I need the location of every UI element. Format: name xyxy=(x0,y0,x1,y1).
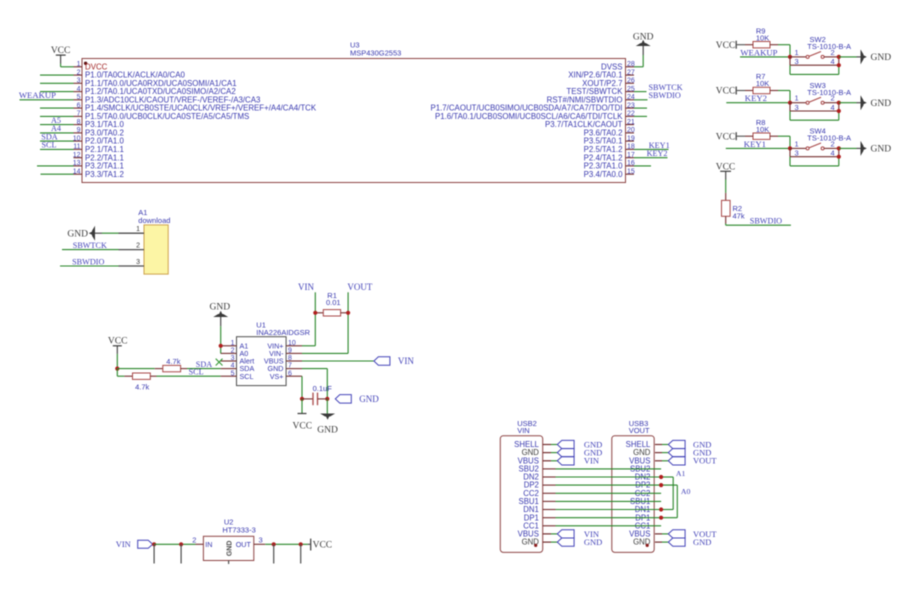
wire DP1 USB2 to USB3 xyxy=(543,517,661,519)
svg-text:3: 3 xyxy=(259,535,263,544)
wire net SBWTCK (A1 pin2) xyxy=(62,249,119,251)
wire net SCL xyxy=(157,375,221,377)
junction SW2 pin2 xyxy=(837,55,841,59)
port flag GND (cap) xyxy=(335,394,379,404)
switch SW3 TS-1010-B-A xyxy=(790,81,851,112)
wire U3 pin 4 xyxy=(40,91,74,93)
junction SW4 pin4 xyxy=(837,155,841,159)
junction SW4 pin2 xyxy=(837,146,841,150)
switch SW4 TS-1010-B-A xyxy=(790,127,851,158)
svg-text:12: 12 xyxy=(73,152,81,159)
svg-text:XIN/P2.6/TA0.1: XIN/P2.6/TA0.1 xyxy=(568,71,622,80)
port flag VIN (U2) xyxy=(116,539,153,549)
wire VCC to R9 xyxy=(737,44,745,46)
svg-text:VCC: VCC xyxy=(293,421,313,431)
ground GND (below cap) xyxy=(317,414,338,436)
wire net KEY1 xyxy=(726,147,790,149)
junction cap right xyxy=(325,397,329,401)
resistor R1 0.01 xyxy=(315,291,348,316)
junction cap left xyxy=(300,397,304,401)
svg-text:VIN: VIN xyxy=(298,282,314,292)
wire U3 pin 11 xyxy=(40,148,74,150)
svg-text:DVSS: DVSS xyxy=(601,62,623,71)
wire U3 pin 10 xyxy=(40,140,74,142)
ground GND (U3 pin 28) xyxy=(633,33,654,55)
svg-text:P2.3/TA1.0: P2.3/TA1.0 xyxy=(584,162,624,171)
svg-text:VCC: VCC xyxy=(716,87,736,97)
port flag GND (USB3 GND) xyxy=(668,448,711,458)
ground GND (SW4) xyxy=(857,141,892,156)
wire SW2 pins 3-4 loop xyxy=(790,65,839,74)
svg-text:2: 2 xyxy=(831,94,835,103)
junction R1 left xyxy=(313,311,317,315)
svg-text:SBWDIO: SBWDIO xyxy=(750,216,782,225)
wire cap to VCC xyxy=(301,399,303,414)
power flag VCC (R2) xyxy=(716,162,736,179)
junction DN1 xyxy=(659,507,663,511)
junction output cap 2 xyxy=(299,542,303,546)
wire CC2 USB2 to USB3 xyxy=(543,492,661,494)
svg-text:GND: GND xyxy=(67,230,88,240)
junction output cap xyxy=(272,542,276,546)
port flag VIN (USB2 VBUS) xyxy=(557,529,599,539)
power flag VCC (R9 row) xyxy=(716,41,736,51)
regulator U2 HT7333-3 xyxy=(203,518,255,564)
resistor R2 47k xyxy=(722,193,745,224)
svg-text:GND: GND xyxy=(584,537,602,547)
wire U1 GND to cap xyxy=(302,369,327,399)
junction input cap xyxy=(179,542,183,546)
svg-text:5: 5 xyxy=(77,94,81,101)
no-connect X (U1 pin3 Alert) xyxy=(216,359,223,366)
svg-text:P3.7/TA1CLK/CAOUT: P3.7/TA1CLK/CAOUT xyxy=(545,120,623,129)
wire cap to GND xyxy=(326,399,328,414)
wire VCC to U3 pin1 xyxy=(61,64,74,67)
power flag VCC (U3 pin 1) xyxy=(51,46,71,64)
svg-text:SBWTCK: SBWTCK xyxy=(73,241,107,250)
wire USB2 SHELL pin xyxy=(543,444,551,446)
svg-text:GND: GND xyxy=(693,537,711,547)
svg-text:1: 1 xyxy=(231,340,235,347)
svg-text:14: 14 xyxy=(73,168,81,175)
switch SW2 TS-1010-B-A xyxy=(790,35,851,66)
wire net VIN (U1 VBUS) xyxy=(302,360,374,362)
connector USB3 (VOUT) xyxy=(612,419,654,553)
port flag VOUT (USB3 VBUS) xyxy=(668,456,717,466)
wire DP2 USB2 to USB3 xyxy=(543,484,661,486)
svg-text:VOUT: VOUT xyxy=(347,282,372,292)
svg-text:VCC: VCC xyxy=(716,132,736,142)
resistor R9 10K xyxy=(745,26,778,48)
svg-text:0.01: 0.01 xyxy=(326,298,341,307)
svg-text:P1.7/CAOUT/UCB0SIMO/UCB0SDA/A7: P1.7/CAOUT/UCB0SIMO/UCB0SDA/A7/CA7/TDO/T… xyxy=(430,104,622,113)
wire net WEAKUP (U3 pin 5) xyxy=(20,99,74,101)
svg-text:7: 7 xyxy=(288,363,292,370)
wire VOUT vertical xyxy=(302,292,348,353)
wire GND to U1 pin1 xyxy=(220,326,222,353)
resistor R8 10K xyxy=(745,118,778,140)
wire U3 pin 3 xyxy=(40,82,74,84)
capacitor lead (output, cropped) xyxy=(273,544,275,563)
wire DN1 USB2 to USB3 xyxy=(543,509,661,511)
svg-text:VIN: VIN xyxy=(517,426,530,435)
svg-text:OUT: OUT xyxy=(236,540,252,549)
svg-text:KEY1: KEY1 xyxy=(744,139,766,149)
power flag VCC (U1 pullups) xyxy=(108,336,128,354)
svg-text:SBWDIO: SBWDIO xyxy=(649,91,681,100)
wire USB3 GND pin xyxy=(655,541,662,543)
wire VCC to R7 xyxy=(737,90,745,92)
wire VCC branch down xyxy=(117,369,124,377)
svg-text:SCL: SCL xyxy=(41,141,56,150)
wire U3 pin 22 xyxy=(634,115,647,117)
svg-text:TS-1010-B-A: TS-1010-B-A xyxy=(807,88,851,97)
power flag VCC (R7 row) xyxy=(716,87,736,97)
svg-text:VIN: VIN xyxy=(584,456,599,466)
svg-text:GND: GND xyxy=(317,425,338,435)
svg-text:11: 11 xyxy=(73,144,80,151)
junction node WEAKUP xyxy=(788,55,792,59)
IC U1 INA226AIDGSR xyxy=(221,320,311,385)
wire SW3 to GND xyxy=(839,102,857,104)
wire USB3 VBUS pin xyxy=(655,460,662,462)
wire U3 pin 24 xyxy=(634,99,648,101)
junction node KEY1 xyxy=(788,146,792,150)
svg-text:18: 18 xyxy=(627,144,635,151)
wire USB2 VBUS pin xyxy=(543,533,551,535)
svg-text:2: 2 xyxy=(192,535,196,544)
wire SBU1 USB2 to USB3 xyxy=(543,500,661,502)
wire U3 pin 14 xyxy=(41,173,74,175)
svg-text:6: 6 xyxy=(77,102,81,109)
svg-text:WEAKUP: WEAKUP xyxy=(19,90,56,100)
resistor 4.7k (SDA pullup) xyxy=(155,357,187,372)
port flag GND (USB3 SHELL) xyxy=(668,439,711,449)
svg-text:VCC: VCC xyxy=(313,540,333,550)
wire VCC to R8 xyxy=(737,135,745,137)
junction U1 pin1 xyxy=(219,344,223,348)
svg-text:8: 8 xyxy=(288,355,292,362)
wire U3 pin 7 xyxy=(40,115,74,117)
wire net KEY1 (U3 pin18) xyxy=(634,148,669,150)
svg-text:2: 2 xyxy=(831,139,835,148)
IC U3 MSP430G2553 xyxy=(73,41,635,183)
junction DP1 xyxy=(659,516,663,520)
junction SW3 pin4 xyxy=(837,109,841,113)
svg-text:20: 20 xyxy=(627,127,635,134)
svg-text:21: 21 xyxy=(627,119,635,126)
svg-text:WEAKUP: WEAKUP xyxy=(740,47,777,57)
svg-text:P1.6/TA0.1/UCB0SOMI/UCB0SCL/A6: P1.6/TA0.1/UCB0SOMI/UCB0SCL/A6/CA6/TDI/T… xyxy=(435,112,623,121)
ground GND (A1 pin1) xyxy=(67,226,102,241)
svg-text:19: 19 xyxy=(627,135,635,142)
ground GND (U1 pins 1-2) xyxy=(210,302,231,326)
wire U2 OUT to VCC xyxy=(254,543,310,545)
svg-text:A0: A0 xyxy=(681,487,691,496)
junction R1 right xyxy=(346,311,350,315)
wire VIN to U2 IN xyxy=(154,543,203,545)
svg-text:P3.5/TA0.1: P3.5/TA0.1 xyxy=(584,137,623,146)
wire SW3 pins 3-4 loop xyxy=(790,111,839,120)
svg-text:25: 25 xyxy=(627,86,635,93)
ground GND (SW2) xyxy=(857,49,892,64)
svg-text:1: 1 xyxy=(77,61,81,68)
svg-text:4.7k: 4.7k xyxy=(135,382,149,391)
svg-text:1: 1 xyxy=(136,226,140,233)
svg-text:GND: GND xyxy=(210,302,231,312)
svg-text:3: 3 xyxy=(77,78,81,85)
svg-text:GND: GND xyxy=(359,394,379,404)
port flag VIN (USB2 VBUS) xyxy=(557,456,599,466)
wire USB2 GND pin xyxy=(543,452,551,454)
junction SW3 pin2 xyxy=(837,101,841,105)
svg-text:KEY2: KEY2 xyxy=(647,149,668,158)
svg-text:VS+: VS+ xyxy=(270,372,284,381)
capacitor 0.1uF xyxy=(302,384,332,405)
svg-text:1: 1 xyxy=(795,94,799,103)
svg-text:23: 23 xyxy=(627,102,635,109)
capacitor lead (output 2, cropped) xyxy=(300,544,302,563)
wire SBU2 USB2 to USB3 xyxy=(543,468,661,470)
junction SW2 pin4 xyxy=(837,63,841,67)
port flag VIN (U1 VBUS) xyxy=(374,356,414,366)
wire U3 pin 8 xyxy=(40,124,74,126)
svg-text:HT7333-3: HT7333-3 xyxy=(222,525,255,534)
svg-text:VCC: VCC xyxy=(716,41,736,51)
svg-text:VIN: VIN xyxy=(116,539,131,549)
port flag GND (USB3 GND) xyxy=(668,537,711,547)
svg-text:P2.5/TA1.2: P2.5/TA1.2 xyxy=(584,145,623,154)
svg-text:2: 2 xyxy=(231,348,235,355)
svg-text:10: 10 xyxy=(73,135,81,142)
svg-text:IN: IN xyxy=(205,540,212,549)
wire net KEY2 xyxy=(726,102,790,104)
svg-text:TS-1010-B-A: TS-1010-B-A xyxy=(807,134,851,143)
svg-text:download: download xyxy=(138,216,170,225)
wire SW4 pins 3-4 loop xyxy=(790,157,839,166)
wire USB3 VBUS pin xyxy=(655,533,662,535)
svg-text:INA226AIDGSR: INA226AIDGSR xyxy=(256,328,310,337)
svg-text:SCL: SCL xyxy=(240,372,254,381)
svg-text:4: 4 xyxy=(77,86,81,93)
wire U1 VS+ down xyxy=(301,376,303,399)
svg-text:15: 15 xyxy=(627,168,635,175)
capacitor lead (input, cropped) xyxy=(153,544,155,563)
svg-text:47k: 47k xyxy=(733,212,745,221)
svg-text:10K: 10K xyxy=(756,33,769,42)
junction DN2 xyxy=(659,475,663,479)
svg-text:10K: 10K xyxy=(756,79,769,88)
svg-text:4.7k: 4.7k xyxy=(166,357,180,366)
svg-text:SBWDIO: SBWDIO xyxy=(72,257,104,266)
wire U3 pin28 to GND xyxy=(634,55,643,67)
wire SW2 to GND xyxy=(839,56,857,58)
svg-text:P3.4/TA0.0: P3.4/TA0.0 xyxy=(584,170,624,179)
wire USB2 GND pin xyxy=(543,541,551,543)
svg-text:MSP430G2553: MSP430G2553 xyxy=(350,49,401,58)
power flag VCC (U2 out) xyxy=(311,539,332,551)
svg-text:2: 2 xyxy=(831,48,835,57)
wire U3 pin 13 xyxy=(37,165,74,167)
resistor 4.7k (SCL pullup) xyxy=(124,373,156,391)
wire net SDA xyxy=(187,368,221,370)
svg-text:10K: 10K xyxy=(756,125,769,134)
connector A1 download xyxy=(119,208,171,274)
svg-text:P2.4/TA1.2: P2.4/TA1.2 xyxy=(584,153,623,162)
wire VCC to R-SDA xyxy=(117,368,154,370)
wire VCC down xyxy=(116,354,118,369)
wire crossover net A1 (DN2-DN1) xyxy=(661,477,673,510)
wire U3 pin 9 xyxy=(40,132,74,134)
svg-text:VCC: VCC xyxy=(108,336,128,346)
svg-text:0.1uF: 0.1uF xyxy=(313,384,333,393)
svg-text:VCC: VCC xyxy=(51,46,71,56)
svg-text:1: 1 xyxy=(795,139,799,148)
svg-text:GND: GND xyxy=(871,99,892,109)
svg-text:8: 8 xyxy=(77,119,81,126)
svg-text:9: 9 xyxy=(288,348,292,355)
wire DN2 USB2 to USB3 xyxy=(543,476,661,478)
svg-text:13: 13 xyxy=(73,160,81,167)
wire R8 to KEY1 node xyxy=(778,136,790,148)
svg-text:GND: GND xyxy=(871,53,892,63)
port flag GND (USB2 GND) xyxy=(557,448,602,458)
svg-text:TS-1010-B-A: TS-1010-B-A xyxy=(807,42,851,51)
wire net SBWDIO (R2) xyxy=(726,224,791,226)
svg-text:28: 28 xyxy=(627,61,635,68)
svg-text:16: 16 xyxy=(627,160,635,167)
power flag VCC (below cap) xyxy=(293,414,313,432)
svg-text:3: 3 xyxy=(136,259,140,266)
svg-text:27: 27 xyxy=(627,69,635,76)
svg-text:9: 9 xyxy=(77,127,81,134)
wire USB3 SHELL pin xyxy=(655,444,662,446)
svg-text:GND: GND xyxy=(871,145,892,155)
wire U3 pin 25 xyxy=(634,91,647,93)
svg-text:RST#/NMI/SBWTDIO: RST#/NMI/SBWTDIO xyxy=(547,95,623,104)
junction VIN flag xyxy=(152,542,156,546)
wire U3 pin 2 xyxy=(40,74,74,76)
junction DP2 xyxy=(659,483,663,487)
wire crossover net A0 (DP2-DP1) xyxy=(661,485,677,518)
svg-text:VOUT: VOUT xyxy=(629,426,650,435)
svg-text:22: 22 xyxy=(627,111,635,118)
wire R7 to KEY2 node xyxy=(778,91,790,103)
svg-text:24: 24 xyxy=(627,94,635,101)
capacitor lead (input 2, cropped) xyxy=(180,544,182,563)
svg-text:KEY2: KEY2 xyxy=(745,93,767,103)
wire net SBWDIO (A1 pin3) xyxy=(60,265,119,267)
svg-text:SCL: SCL xyxy=(189,368,204,377)
port flag GND (USB2 GND) xyxy=(557,537,602,547)
wire USB3 GND pin xyxy=(655,452,662,454)
svg-text:7: 7 xyxy=(77,111,81,118)
svg-text:TEST/SBWTCK: TEST/SBWTCK xyxy=(566,87,623,96)
svg-text:5: 5 xyxy=(231,370,235,377)
wire R9 to WEAKUP node xyxy=(778,45,790,57)
svg-text:GND: GND xyxy=(227,541,234,557)
wire VCC to R2 xyxy=(725,180,727,193)
wire U3 pin 16 xyxy=(634,165,651,167)
wire U3 pin 23 xyxy=(634,107,647,109)
svg-text:VOUT: VOUT xyxy=(693,456,717,466)
svg-text:P3.6/TA0.2: P3.6/TA0.2 xyxy=(584,129,623,138)
wire A1 pin1 to GND xyxy=(102,232,119,234)
wire SW4 to GND xyxy=(839,147,857,149)
resistor R7 10K xyxy=(745,72,778,94)
wire U3 pin 6 xyxy=(40,107,74,109)
wire net KEY2 (U3 pin17) xyxy=(634,157,668,159)
junction VCC pullups xyxy=(115,367,119,371)
wire CC1 USB2 to USB3 xyxy=(543,525,661,527)
svg-text:P3.3/TA1.2: P3.3/TA1.2 xyxy=(85,170,124,179)
svg-text:26: 26 xyxy=(627,78,635,85)
svg-text:A1: A1 xyxy=(676,469,686,478)
svg-text:XOUT/P2.7: XOUT/P2.7 xyxy=(582,79,622,88)
svg-text:1: 1 xyxy=(795,48,799,57)
ground GND (SW3) xyxy=(857,95,892,110)
wire VIN vertical xyxy=(302,292,315,346)
junction node KEY2 xyxy=(788,101,792,105)
svg-text:10: 10 xyxy=(288,340,296,347)
svg-text:6: 6 xyxy=(288,370,292,377)
wire net WEAKUP xyxy=(740,56,790,58)
power flag VCC (R8 row) xyxy=(716,132,736,142)
wire USB2 VBUS pin xyxy=(543,460,551,462)
port flag GND (USB2 SHELL) xyxy=(557,439,602,449)
port flag VOUT (USB3 VBUS) xyxy=(668,529,717,539)
svg-text:17: 17 xyxy=(627,152,635,159)
svg-text:2: 2 xyxy=(136,243,140,250)
svg-text:3: 3 xyxy=(231,355,235,362)
connector USB2 (VIN) xyxy=(500,419,542,553)
svg-text:2: 2 xyxy=(77,69,81,76)
svg-text:VIN: VIN xyxy=(398,356,414,366)
svg-text:4: 4 xyxy=(231,363,235,370)
